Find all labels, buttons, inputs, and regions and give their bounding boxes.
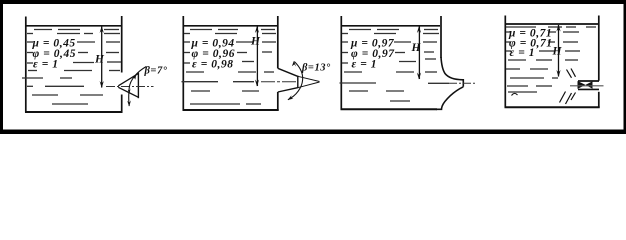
label mu=0,94 bbox=[191, 38, 235, 50]
label beta=7deg bbox=[144, 66, 168, 77]
label phi=0,97 bbox=[351, 48, 395, 60]
water hatch lines tank 2 bbox=[182, 30, 277, 105]
label eps=0,98 bbox=[192, 59, 234, 71]
vena contracta bowtie bbox=[578, 81, 593, 89]
nozzle tank 1 axis line bbox=[106, 86, 154, 88]
nozzle tank 3 axis line bbox=[449, 82, 477, 84]
label H tank 3 bbox=[411, 42, 422, 54]
label beta=13deg bbox=[301, 63, 331, 74]
svg-text:β=13°: β=13° bbox=[301, 63, 331, 74]
tank 4 right wall upper bbox=[598, 16, 600, 81]
label mu=0,71 bbox=[508, 28, 552, 40]
jet axis line tank 4 bbox=[570, 85, 604, 87]
label eps=1 bbox=[33, 59, 59, 71]
label H tank 1 bbox=[94, 54, 105, 66]
svg-text:H: H bbox=[250, 36, 261, 48]
tank 4 right wall lower bbox=[598, 92, 600, 108]
nozzle tank 2: angle extension lines to apex bbox=[298, 76, 320, 87]
H dimension line tank 1 bbox=[100, 26, 104, 88]
water hatch lines tank 1 bbox=[22, 30, 121, 105]
tank 1 water surface line bbox=[27, 25, 122, 27]
tank 2 water surface line bbox=[184, 25, 277, 27]
tank 1 left wall bbox=[25, 17, 27, 113]
svg-text:H: H bbox=[552, 46, 563, 58]
water hatch lines tank 4 bbox=[506, 27, 596, 92]
small wave mark bottom left tank 4 bbox=[512, 93, 518, 95]
nozzle tank 1: outlet face bbox=[137, 73, 139, 99]
svg-text:β=7°: β=7° bbox=[144, 66, 168, 77]
svg-text:ε = 0,98: ε = 0,98 bbox=[192, 59, 234, 71]
borda tube bottom line bbox=[578, 88, 599, 90]
tank 2 right wall upper bbox=[277, 16, 279, 68]
tank 4 left wall bbox=[504, 16, 506, 108]
tank 3 bottom bbox=[341, 108, 438, 110]
H dimension line tank 2 bbox=[255, 26, 259, 87]
tank 3 water surface line bbox=[342, 25, 440, 27]
streamline strokes above tube mouth bbox=[567, 69, 576, 78]
tank 2 right wall lower bbox=[277, 92, 279, 111]
angle arc arrow tank 2 bbox=[288, 61, 303, 100]
water hatch lines tank 3 bbox=[340, 30, 450, 102]
label H tank 2 bbox=[250, 36, 261, 48]
tank 1 right wall lower bbox=[121, 95, 123, 113]
streamline strokes below tube mouth bbox=[560, 92, 576, 105]
svg-text:H: H bbox=[94, 54, 105, 66]
nozzle tank 1: diverging cone upper edge bbox=[118, 74, 138, 86]
svg-text:ε = 1: ε = 1 bbox=[352, 59, 378, 71]
outer black frame bbox=[0, 0, 626, 134]
angle arc arrow tank 1 bbox=[127, 67, 146, 107]
tank 3 conoidal nozzle lower profile bbox=[436, 87, 463, 110]
tank 2 left wall bbox=[182, 16, 184, 111]
label mu=0,97 bbox=[350, 38, 395, 50]
tank 3 left wall bbox=[340, 16, 342, 110]
label H tank 4 bbox=[552, 46, 563, 58]
label phi=0,45 bbox=[33, 48, 77, 60]
svg-text:ε = 1: ε = 1 bbox=[33, 59, 59, 71]
nozzle tank 2: converging cone upper edge bbox=[278, 68, 298, 76]
tank 2 bottom bbox=[183, 109, 279, 111]
nozzle tank 1: diverging cone lower edge bbox=[118, 87, 138, 97]
tank 3 right wall upper bbox=[440, 16, 442, 58]
label mu=0,45 bbox=[32, 38, 76, 50]
tank 1 bottom bbox=[25, 111, 123, 113]
H dimension line tank 4 bbox=[556, 25, 560, 78]
tank 4 water surface line bbox=[506, 23, 598, 25]
svg-text:H: H bbox=[411, 42, 422, 54]
tank 4 bottom bbox=[505, 106, 600, 108]
label eps=1 tank 4 bbox=[510, 47, 536, 59]
svg-text:ε = 1: ε = 1 bbox=[510, 47, 536, 59]
nozzle tank 2: outlet face bbox=[297, 76, 299, 89]
label phi=0,96 bbox=[192, 48, 236, 60]
nozzle tank 2 axis line bbox=[261, 81, 297, 83]
label phi=0,71 bbox=[509, 38, 553, 50]
borda tube top line bbox=[578, 80, 599, 82]
tank 1 right wall upper bbox=[121, 16, 123, 73]
nozzle tank 2: converging cone lower edge bbox=[278, 88, 298, 92]
tank 3 conoidal nozzle upper profile bbox=[441, 57, 463, 87]
H dimension line tank 3 bbox=[417, 26, 421, 80]
label eps=1 tank 3 bbox=[352, 59, 378, 71]
